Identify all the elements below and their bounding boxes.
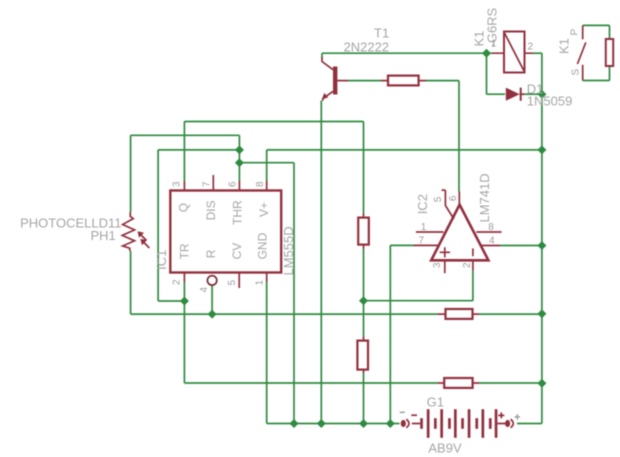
wire resistor column middle segments	[363, 249, 365, 424]
wire right spine vertical to battery plus	[517, 53, 542, 423]
IC1 pin 5 stub	[238, 273, 240, 289]
svg-text:R: R	[204, 249, 218, 258]
junction ground rail c	[359, 419, 368, 428]
svg-text:TR: TR	[178, 243, 192, 259]
battery G1 plus clip	[505, 420, 510, 427]
wire THR junction to right vertical down to ground rail	[239, 163, 294, 424]
op-amp pin 3 stub	[444, 260, 446, 273]
wire diode branch from relay junction	[487, 53, 542, 94]
svg-text:CV: CV	[230, 243, 244, 260]
wire base net T1 to R resistor to op-amp pin6	[348, 81, 459, 192]
svg-text:1: 1	[255, 280, 266, 286]
relay K1 coil diagonal	[505, 33, 524, 71]
battery G1 minus clip	[401, 420, 406, 427]
wire reset pin4 down to net	[211, 285, 213, 314]
junction node TR pin2	[180, 297, 189, 306]
IC1 pin 1 stub	[266, 273, 268, 283]
battery plus symbol red	[498, 412, 504, 418]
wire top net from T1 collector to relay K1	[322, 53, 492, 57]
svg-text:6: 6	[448, 195, 459, 201]
svg-text:1: 1	[491, 39, 497, 50]
resistor R5 horizontal lower	[444, 378, 472, 388]
op-amp pin 2 stub	[472, 260, 474, 270]
junction node R5 net spine	[537, 379, 546, 388]
junction node V+ spine	[537, 145, 546, 154]
transistor T1 collector lead	[322, 57, 333, 70]
junction node diode cathode	[537, 90, 546, 99]
wire V+ pin8 555 to right spine	[267, 150, 542, 181]
op-amp pin 6 stub	[458, 192, 460, 205]
junction ground rail b	[317, 419, 326, 428]
wire op-amp pin7 net down to ground rail	[390, 245, 414, 423]
wire TR pin2 net down and bottom net to R5	[184, 282, 542, 383]
junction ground rail d	[386, 419, 395, 428]
IC1 pin 3 stub	[183, 181, 185, 191]
wire photocell top to THR junction	[131, 135, 240, 150]
svg-text:2N2222: 2N2222	[344, 40, 390, 55]
op-amp plus sign	[440, 247, 450, 257]
op-amp pin 7 stub	[414, 244, 440, 246]
junction node relay coil left	[482, 49, 491, 58]
svg-text:Q: Q	[177, 203, 191, 212]
switch K1 actuator box	[606, 39, 613, 66]
svg-text:8: 8	[488, 222, 494, 233]
junction node R4 net spine	[537, 309, 546, 318]
transistor T1 emitter lead	[323, 91, 333, 101]
resistor R4 horizontal middle	[446, 309, 473, 319]
diode D1 pin	[520, 93, 525, 95]
battery minus symbol gray	[400, 411, 405, 413]
IC1 pin 7 stub	[212, 175, 214, 191]
wire photocell vertical and bottom net to R4	[131, 135, 542, 314]
battery G1 terminal stubs	[412, 423, 506, 425]
switch K1 contact P pole	[582, 25, 584, 39]
junction node pin4 reset	[208, 310, 217, 319]
svg-text:1N5059: 1N5059	[527, 93, 573, 108]
IC1 LM555D body	[170, 191, 281, 273]
svg-text:P: P	[570, 29, 581, 36]
svg-text:5: 5	[227, 280, 238, 286]
resistor R2 vertical upper	[358, 218, 369, 245]
svg-text:PH1: PH1	[91, 228, 116, 243]
svg-text:1: 1	[421, 222, 427, 233]
svg-text:2: 2	[172, 279, 183, 285]
photocell PH1 zigzag	[122, 212, 134, 251]
junction node op-amp pin2 net	[359, 296, 368, 305]
svg-text:THR: THR	[231, 200, 245, 225]
svg-text:5: 5	[433, 196, 444, 202]
svg-text:G1: G1	[427, 394, 444, 409]
junction ground rail a	[290, 419, 299, 428]
op-amp pin 5 stub	[442, 190, 454, 219]
diode D1 triangle	[506, 88, 520, 101]
wire emitter vertical down to ground rail	[320, 101, 322, 424]
switch K1 blade	[577, 42, 585, 64]
wire GND pin1 down to ground rail	[267, 282, 400, 424]
resistor R4 pins	[438, 313, 480, 315]
wire op-amp pin4 to right spine	[500, 245, 542, 247]
junction node THR upper	[235, 145, 244, 154]
photocell PH1 light arrow upper	[141, 235, 147, 241]
battery G1 cell plates	[420, 409, 497, 438]
wire TR net left loop	[158, 150, 239, 301]
svg-text:8: 8	[255, 181, 266, 187]
op-amp pin 1 stub	[416, 231, 444, 233]
svg-text:3: 3	[172, 181, 183, 187]
resistor R base pins	[337, 80, 426, 82]
svg-text:2: 2	[528, 42, 534, 53]
svg-text:AB9V: AB9V	[428, 440, 462, 455]
junction node pin4 op-amp spine	[537, 241, 546, 250]
relay K1 coil pins	[492, 52, 533, 54]
svg-text:4: 4	[489, 236, 495, 247]
svg-text:IC2: IC2	[415, 194, 430, 214]
svg-text:LM741D: LM741D	[477, 173, 492, 222]
op-amp pin 8 stub	[476, 231, 501, 233]
svg-text:4: 4	[199, 287, 210, 293]
svg-text:7: 7	[419, 235, 425, 246]
svg-text:2: 2	[462, 262, 473, 268]
switch K1 contact S pole	[582, 65, 584, 81]
svg-text:7: 7	[201, 181, 212, 187]
svg-text:IC1: IC1	[154, 250, 169, 270]
wire op-amp pin2 net	[364, 271, 473, 301]
resistor R base (between T1 and op-amp)	[388, 76, 419, 86]
IC1 pin 4 reset circle	[207, 276, 216, 285]
battery minus symbol red	[411, 414, 417, 416]
svg-text:GND: GND	[256, 232, 270, 259]
op-amp pin 4 stub	[480, 245, 500, 247]
wire switch loop K1 contact circuit	[583, 25, 610, 80]
battery plus symbol gray	[515, 414, 520, 419]
relay K1 coil box	[504, 32, 525, 73]
IC1 pin 2 stub	[183, 273, 185, 283]
photocell PH1 light arrow lower	[144, 243, 150, 249]
svg-text:DIS: DIS	[204, 200, 218, 220]
wire relay pin2 to spine	[533, 52, 542, 54]
svg-text:T1: T1	[374, 26, 389, 41]
diode D1 cathode bar	[520, 88, 522, 101]
wire Q output pin3 555 horizontal to vertical resistor column	[184, 122, 363, 214]
resistor R2 pins	[363, 214, 365, 249]
resistor R3 vertical lower	[357, 341, 368, 370]
svg-text:V+: V+	[257, 202, 271, 217]
resistor R5 pins	[438, 382, 480, 384]
IC1 pin 8 stub	[266, 181, 268, 191]
svg-text:3: 3	[432, 262, 443, 268]
svg-text:6: 6	[227, 181, 238, 187]
transistor Q1 T1 base bar	[333, 67, 337, 95]
junction node THR lower	[235, 158, 244, 167]
resistor R3 pins	[363, 337, 365, 374]
svg-text:S: S	[571, 69, 582, 76]
wire pin6 THR stub green	[238, 163, 240, 181]
IC1 pin 6 stub	[238, 181, 240, 191]
svg-text:K1: K1	[557, 38, 572, 54]
op-amp U2 LM741D triangle	[431, 205, 488, 261]
transistor T1 emitter arrow	[322, 93, 328, 99]
op-amp minus sign	[472, 248, 474, 256]
wire junction link node THR	[238, 150, 240, 163]
svg-text:LM555D: LM555D	[281, 226, 296, 275]
